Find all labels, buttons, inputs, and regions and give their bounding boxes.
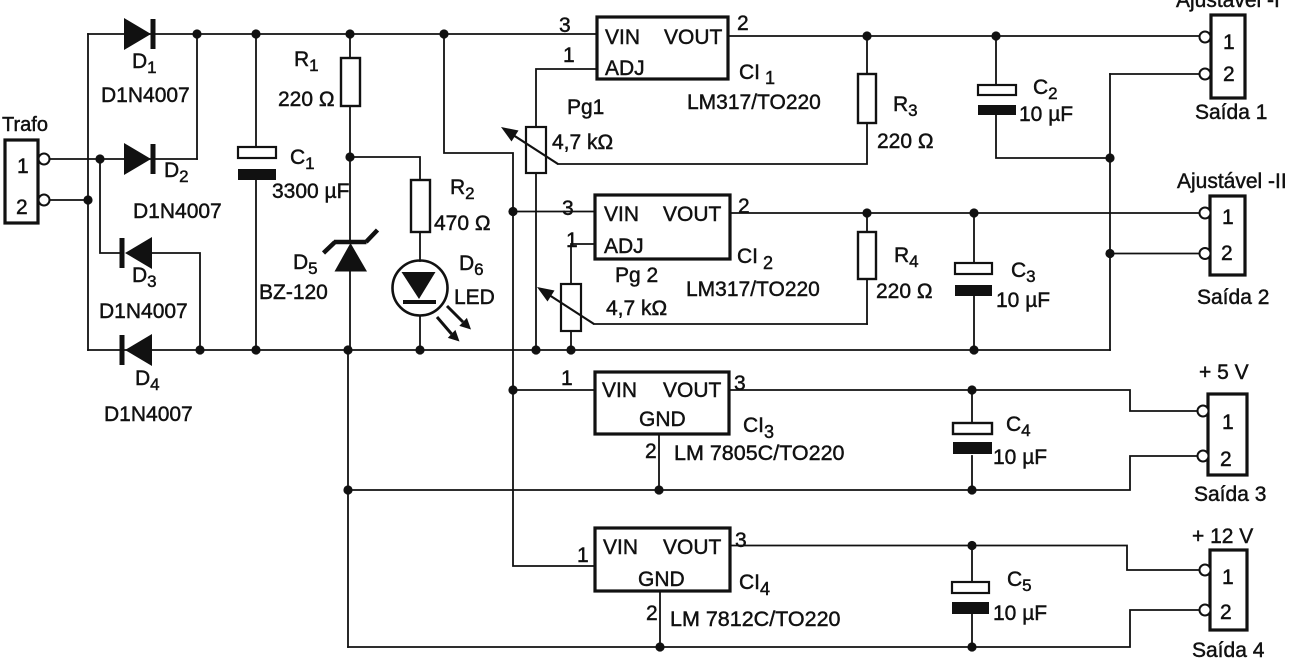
- svg-text:2: 2: [16, 196, 28, 219]
- resistor R4: [858, 232, 876, 279]
- svg-text:470 Ω: 470 Ω: [434, 212, 491, 235]
- node: C3 on VOUT2 bus: [969, 208, 978, 217]
- svg-text:D1N4007: D1N4007: [133, 200, 222, 223]
- svg-text:VIN: VIN: [604, 203, 639, 226]
- wire: CI4 GND lead: [659, 591, 661, 647]
- connector Trafo terminal circles: [39, 154, 50, 165]
- zener diode D5: [324, 230, 378, 272]
- svg-text:1: 1: [1222, 411, 1234, 434]
- svg-text:2: 2: [645, 440, 657, 463]
- wire: top positive bus from bridge to CI1 VIN: [88, 33, 597, 35]
- node: C5 on bottom bus: [967, 642, 976, 651]
- connector Saida 4 terminal circles: [1200, 565, 1211, 576]
- wire: CI3 VIN spur: [513, 389, 595, 391]
- wire: CI2 VOUT bus to Saida 2: [730, 212, 1199, 214]
- svg-text:2: 2: [646, 602, 658, 625]
- svg-text:1: 1: [561, 367, 573, 390]
- svg-text:1: 1: [1223, 31, 1235, 54]
- svg-text:LM 7812C/TO220: LM 7812C/TO220: [670, 607, 841, 631]
- svg-text:VOUT: VOUT: [663, 536, 722, 559]
- wire: C3 top lead: [973, 213, 975, 263]
- svg-text:220 Ω: 220 Ω: [877, 130, 934, 153]
- svg-text:VOUT: VOUT: [664, 26, 723, 49]
- wire: Pg1 bottom to ground bus: [535, 173, 537, 350]
- svg-text:1: 1: [1222, 566, 1234, 589]
- wire: C3 bottom lead to ground bus: [973, 296, 975, 350]
- node: CI4 GND on bottom bus: [655, 642, 664, 651]
- wire: D2 row horizontal: [100, 158, 197, 160]
- svg-text:Ajustável -II: Ajustável -II: [1177, 170, 1287, 193]
- svg-text:+ 5 V: + 5 V: [1199, 361, 1249, 384]
- svg-text:10 µF: 10 µF: [996, 289, 1050, 312]
- wire: bottom ground bus to Saida 4 pin2: [348, 610, 1200, 647]
- wire: trafo terminal 1 lead: [49, 158, 100, 160]
- svg-text:3: 3: [735, 529, 747, 552]
- wire: left ground vertical: [347, 350, 349, 647]
- node: Saida2 pin2 on right riser: [1105, 249, 1114, 258]
- diode D4: [120, 334, 153, 366]
- potentiometer Pg1: [501, 127, 558, 173]
- svg-text:1: 1: [17, 155, 29, 178]
- wire: C1 bottom lead: [255, 179, 257, 350]
- svg-text:ADJ: ADJ: [605, 57, 645, 80]
- wire: D2 cathode riser to top bus: [196, 34, 198, 159]
- node: CI3 GND on mid bus: [654, 485, 663, 494]
- node: trafo1 to D2 anode: [95, 154, 104, 163]
- svg-text:Pg1: Pg1: [567, 96, 604, 119]
- wire: R3 top to VOUT bus: [866, 36, 868, 74]
- wire: D5 anode lead to ground bus: [349, 271, 351, 350]
- svg-text:Saída 3: Saída 3: [1194, 483, 1266, 506]
- node: trafo2 on AC2 vertical: [83, 195, 92, 204]
- svg-text:BZ-120: BZ-120: [259, 281, 328, 304]
- svg-text:2: 2: [1223, 63, 1235, 86]
- diode D1: [124, 18, 156, 50]
- wire: D5 cathode lead: [349, 157, 351, 241]
- svg-text:VIN: VIN: [605, 26, 640, 49]
- wire: AC1 vertical down to D3: [100, 159, 122, 253]
- svg-text:1: 1: [563, 44, 575, 67]
- wire: R1 bottom lead to node: [349, 106, 351, 157]
- svg-text:1: 1: [566, 229, 578, 252]
- node: R1 on top bus: [345, 29, 354, 38]
- svg-text:Ajustável -I: Ajustável -I: [1176, 0, 1280, 12]
- wire: main ground bus: [88, 349, 1110, 351]
- diode D2: [124, 143, 156, 175]
- svg-text:3300 µF: 3300 µF: [272, 180, 349, 203]
- node: Pg1 on ground bus: [531, 345, 540, 354]
- wire: C5 bottom lead: [971, 613, 973, 647]
- node: C4 on mid bus: [967, 485, 976, 494]
- capacitor C5: [952, 582, 989, 614]
- svg-text:3: 3: [562, 197, 574, 220]
- wire: R4 top lead: [866, 213, 868, 232]
- svg-text:3: 3: [559, 14, 571, 37]
- wire: CI1 ADJ to Pg1: [536, 69, 597, 127]
- wire: mid ground bus to Saida 3 pin2: [348, 456, 1198, 490]
- svg-text:D1N4007: D1N4007: [101, 84, 190, 107]
- wire: Saida2 pin2 lead: [1110, 253, 1199, 255]
- wire: C1 top lead: [255, 34, 257, 148]
- resistor R2: [411, 180, 430, 232]
- regulator CI4 box: [595, 528, 730, 591]
- connector Saida 1 terminal circles: [1200, 32, 1211, 43]
- connector Saida 2 terminal circles: [1200, 208, 1211, 219]
- node: left vertical on ground bus: [343, 345, 352, 354]
- node: Pg2 on ground bus: [566, 345, 575, 354]
- wire: Pg1 wiper to R3 bottom: [558, 123, 867, 164]
- capacitor C2: [978, 85, 1016, 115]
- svg-text:LM317/TO220: LM317/TO220: [686, 278, 820, 301]
- capacitor C3: [955, 263, 992, 296]
- potentiometer Pg2: [537, 284, 594, 331]
- svg-text:2: 2: [1221, 242, 1233, 265]
- node: left vertical on mid bus: [343, 485, 352, 494]
- node: C2 gnd on right riser: [1105, 153, 1114, 162]
- wire: C5 top lead: [971, 546, 973, 583]
- svg-text:220 Ω: 220 Ω: [278, 88, 335, 111]
- svg-text:LED: LED: [454, 286, 495, 309]
- regulator CI2 box: [595, 195, 730, 259]
- svg-text:VIN: VIN: [602, 379, 637, 402]
- wire: CI4 VOUT to Saida 4 pin1: [730, 546, 1200, 571]
- resistor R3: [858, 74, 876, 123]
- wire: trafo terminal 2 lead: [49, 199, 88, 201]
- svg-text:10 µF: 10 µF: [993, 446, 1047, 469]
- node: R3 on VOUT1 bus: [862, 31, 871, 40]
- node: CI3 VIN tap: [508, 385, 517, 394]
- svg-text:Pg 2: Pg 2: [615, 264, 658, 287]
- svg-text:GND: GND: [638, 568, 685, 591]
- wire: CI1 VOUT bus to Saida 1: [728, 35, 1199, 37]
- svg-text:4,7 kΩ: 4,7 kΩ: [552, 131, 613, 154]
- node: C1 on ground bus: [251, 345, 260, 354]
- svg-text:10 µF: 10 µF: [993, 602, 1047, 625]
- wire: unregulated feed from top bus down to CI2/CI3/CI4 VIN: [444, 34, 595, 566]
- connector Saida 2 box: [1210, 196, 1245, 275]
- node: C3 on ground bus: [969, 345, 978, 354]
- wire: C4 bottom lead: [971, 456, 973, 490]
- wire: CI3 GND lead: [658, 434, 660, 490]
- LED D6: [393, 261, 472, 342]
- node: R1/D5/R2 junction: [345, 152, 354, 161]
- connector Saida 1 box: [1211, 15, 1245, 98]
- svg-text:+ 12 V: + 12 V: [1192, 525, 1253, 548]
- wire: Pg2 wiper to R4 bottom: [594, 323, 867, 325]
- svg-text:2: 2: [737, 12, 749, 35]
- svg-text:3: 3: [734, 372, 746, 395]
- wire: R2 to LED: [419, 232, 421, 261]
- connector Saida 3 terminal circles: [1198, 406, 1209, 417]
- svg-text:Trafo: Trafo: [2, 114, 48, 136]
- regulator CI1 box: [597, 17, 728, 79]
- wire: C2 bottom lead to gnd riser: [996, 115, 1110, 158]
- node: C1 on top bus: [251, 29, 260, 38]
- svg-text:D1N4007: D1N4007: [104, 403, 193, 426]
- svg-text:VIN: VIN: [603, 536, 638, 559]
- wire: R4 bottom lead: [866, 279, 868, 324]
- wire: Saida1 pin2 lead: [1110, 73, 1199, 75]
- svg-text:4,7 kΩ: 4,7 kΩ: [606, 297, 667, 320]
- wire: LED cathode to ground bus: [419, 316, 421, 350]
- svg-text:GND: GND: [639, 408, 686, 431]
- wire: C4 top lead: [971, 390, 973, 422]
- capacitor C4: [953, 423, 992, 454]
- connector Trafo box: [5, 140, 38, 223]
- node: D2 cathode on top bus: [192, 29, 201, 38]
- svg-text:D1N4007: D1N4007: [99, 300, 188, 323]
- svg-text:2: 2: [1220, 601, 1232, 624]
- svg-text:Saída 4: Saída 4: [1192, 639, 1265, 662]
- wire: CI2 ADJ to Pg2: [571, 244, 595, 284]
- wire: R1 top lead: [349, 34, 351, 58]
- svg-text:1: 1: [577, 544, 589, 567]
- svg-text:10 µF: 10 µF: [1019, 103, 1073, 126]
- wire: CI2 VIN spur: [513, 211, 595, 213]
- wire: node to R2 branch: [350, 157, 420, 180]
- node: C4 on VOUT3 wire: [967, 385, 976, 394]
- svg-text:Saída 2: Saída 2: [1197, 286, 1269, 309]
- svg-text:VOUT: VOUT: [663, 379, 722, 402]
- regulator CI3 box: [595, 372, 729, 434]
- svg-text:LM 7805C/TO220: LM 7805C/TO220: [674, 441, 845, 465]
- node: feed tap on top bus: [439, 29, 448, 38]
- node: C5 on VOUT4 wire: [967, 541, 976, 550]
- svg-text:2: 2: [738, 195, 750, 218]
- wire: C2 top lead: [995, 36, 997, 85]
- wire: right ground riser: [1109, 74, 1111, 350]
- svg-text:220 Ω: 220 Ω: [876, 280, 933, 303]
- connector Saida 4 box: [1210, 550, 1247, 630]
- connector Saida 3 box: [1208, 394, 1247, 475]
- svg-text:ADJ: ADJ: [604, 235, 644, 258]
- diode D3: [120, 237, 153, 269]
- resistor R1: [341, 58, 360, 106]
- capacitor C1: [238, 147, 276, 180]
- node: D3 anode on ground bus: [195, 345, 204, 354]
- node: CI2 VIN tap: [508, 207, 517, 216]
- svg-text:2: 2: [1220, 448, 1232, 471]
- node: C2 on VOUT1 bus: [991, 31, 1000, 40]
- wire: CI3 VOUT to Saida 3 pin1: [729, 390, 1198, 411]
- svg-text:1: 1: [1222, 206, 1234, 229]
- wire: left AC2 vertical (D1 anode to D4 cathode): [87, 34, 89, 350]
- wire: Pg2 bottom to ground bus: [570, 331, 572, 350]
- svg-text:Saída 1: Saída 1: [1195, 101, 1267, 124]
- svg-text:LM317/TO220: LM317/TO220: [687, 91, 821, 114]
- wire: D3 row to ground bus: [152, 253, 200, 350]
- node: R4 on VOUT2 bus: [862, 208, 871, 217]
- svg-text:VOUT: VOUT: [663, 203, 722, 226]
- node: LED on ground bus: [415, 345, 424, 354]
